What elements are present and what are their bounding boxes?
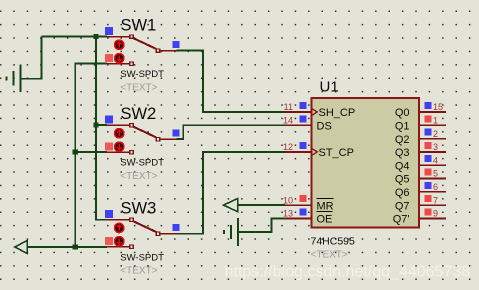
SW1 actuator down: [115, 54, 124, 63]
op IC U1 74HC595: [283, 79, 446, 261]
svg-text:SH_CP: SH_CP: [319, 107, 356, 119]
svg-text:3: 3: [433, 142, 438, 152]
wire SW1 pole to U1 pin 11: [177, 51, 285, 112]
SW1 lever: [133, 38, 156, 49]
SW2 bottom throw pin: [107, 151, 130, 153]
SW2 lever: [133, 127, 156, 138]
junction node SW2-top net: [93, 123, 98, 128]
wire SW1 bottom throw down to bottom net: [75, 64, 107, 247]
logic state square (blue) at SW2 pole: [172, 129, 179, 136]
svg-text:MR: MR: [317, 200, 334, 212]
logic state square (blue) at SW3 top throw: [105, 210, 113, 218]
svg-text:SW-SPDT: SW-SPDT: [120, 69, 164, 80]
U1 pin 11 (SH_CP): [285, 111, 312, 113]
svg-text:<TEXT>: <TEXT>: [120, 266, 157, 277]
svg-text:SW3: SW3: [121, 200, 157, 218]
svg-text:Q3: Q3: [395, 147, 410, 159]
logic state square (red) at SW2 bottom throw: [105, 142, 113, 150]
SW1 bottom throw pin: [107, 63, 130, 65]
logic state square (red) at SW3 bottom throw: [105, 237, 113, 245]
terminal arrow to MR pin 10: [224, 198, 238, 211]
switch SW3: [105, 200, 180, 277]
switch SW2: [105, 105, 180, 182]
SW3 top throw pin: [107, 219, 130, 221]
wire U1 pin 13 to ground GND2: [238, 218, 285, 232]
U1 pin 9 (Q7'): [419, 217, 446, 219]
svg-text:<TEXT>: <TEXT>: [120, 171, 157, 182]
svg-text:2: 2: [433, 129, 438, 139]
SW3 bottom throw pin: [107, 246, 130, 248]
terminal arrow bottom-left: [15, 240, 28, 253]
U1 pin 6 (Q6): [419, 191, 446, 193]
U1 pin 3 (Q3): [419, 151, 446, 153]
svg-text:15: 15: [433, 102, 443, 112]
U1 pin 14 (DS): [285, 124, 312, 126]
SW3 actuator up: [115, 223, 124, 232]
svg-text:1: 1: [433, 116, 438, 126]
U1 body: [312, 98, 419, 227]
logic state square (blue) at SW1 pole: [172, 41, 179, 48]
svg-text:9: 9: [433, 209, 438, 219]
svg-text:6: 6: [433, 182, 438, 192]
U1 pin 5 (Q5): [419, 178, 446, 180]
U1 pin 2 (Q2): [419, 138, 446, 140]
svg-text:Q1: Q1: [395, 121, 410, 133]
SW2 actuator down: [115, 142, 124, 151]
svg-text:<TEXT>: <TEXT>: [311, 250, 348, 261]
svg-text:7: 7: [433, 195, 438, 205]
wire terminal to U1 pin 10: [238, 204, 285, 206]
svg-text:https://blog.csdn.net/qq_44065: https://blog.csdn.net/qq_44065738: [225, 263, 471, 280]
svg-text:Q4: Q4: [395, 160, 410, 172]
svg-text:Q5: Q5: [395, 174, 410, 186]
U1 pin 4 (Q4): [419, 164, 446, 166]
svg-text:11: 11: [284, 102, 293, 112]
SW1 top throw pin: [107, 36, 130, 38]
svg-text:ST_CP: ST_CP: [319, 147, 354, 159]
wire SW3 pole to U1 pin 12: [177, 152, 285, 234]
SW1 actuator up: [115, 40, 124, 49]
wire vertical net SW1-top to SW3-top: [96, 37, 107, 220]
logic state square (blue) at SW1 top throw: [105, 27, 113, 35]
wire bottom net to SW3 bottom throw: [27, 246, 107, 248]
SW1 pole pin: [156, 49, 160, 53]
svg-text:OE: OE: [317, 214, 333, 226]
logic state square (blue) at SW3 pole: [172, 224, 179, 231]
junction node SW1-top net: [93, 34, 98, 39]
junction node SW3-bottom net: [73, 244, 78, 249]
SW2 top throw pin: [107, 124, 130, 126]
U1 pin 15 (Q0): [419, 111, 446, 113]
ground GND1: [7, 65, 21, 93]
svg-text:74HC595: 74HC595: [311, 236, 356, 248]
U1 pin 10 (MR): [285, 204, 312, 206]
svg-text:12: 12: [283, 142, 293, 152]
svg-text:<TEXT>: <TEXT>: [120, 83, 157, 94]
svg-text:Q0: Q0: [395, 107, 410, 119]
ground GND2: [224, 218, 238, 246]
SW3 pole pin: [156, 232, 160, 236]
svg-text:Q7': Q7': [393, 214, 410, 226]
U1 pin 1 (Q1): [419, 124, 446, 126]
logic state square (red) at SW1 bottom throw: [105, 54, 113, 62]
svg-text:SW2: SW2: [121, 105, 157, 123]
svg-text:SW-SPDT: SW-SPDT: [120, 252, 164, 263]
svg-text:10: 10: [283, 195, 293, 205]
svg-text:SW-SPDT: SW-SPDT: [120, 158, 164, 169]
SW3 lever: [133, 221, 156, 232]
logic state square (blue) at SW2 top throw: [105, 115, 113, 123]
svg-text:4: 4: [433, 155, 438, 165]
wire SW1 top throw to net: [41, 36, 107, 38]
wire to ground GND1: [20, 37, 41, 79]
U1 pin 12 (ST_CP): [285, 151, 312, 153]
wire SW2 pole to U1 pin 14: [177, 125, 285, 139]
svg-text:U1: U1: [320, 79, 339, 96]
SW2 actuator up: [115, 129, 124, 138]
svg-text:DS: DS: [317, 121, 332, 133]
wire to SW2 top throw: [96, 124, 107, 126]
svg-text:Q7: Q7: [395, 200, 410, 212]
U1 pin 7 (Q7): [419, 204, 446, 206]
svg-text:5: 5: [433, 169, 438, 179]
svg-text:SW1: SW1: [121, 17, 157, 35]
svg-text:13: 13: [283, 209, 293, 219]
svg-text:14: 14: [283, 116, 293, 126]
SW3 actuator down: [115, 237, 124, 246]
switch SW1: [105, 17, 180, 94]
SW2 pole pin: [156, 137, 160, 141]
wire to SW2 bottom throw: [75, 151, 107, 153]
svg-text:Q6: Q6: [395, 187, 410, 199]
junction node SW2-bottom net: [73, 150, 78, 155]
U1 pin 13 (OE): [285, 217, 312, 219]
svg-text:Q2: Q2: [395, 134, 410, 146]
